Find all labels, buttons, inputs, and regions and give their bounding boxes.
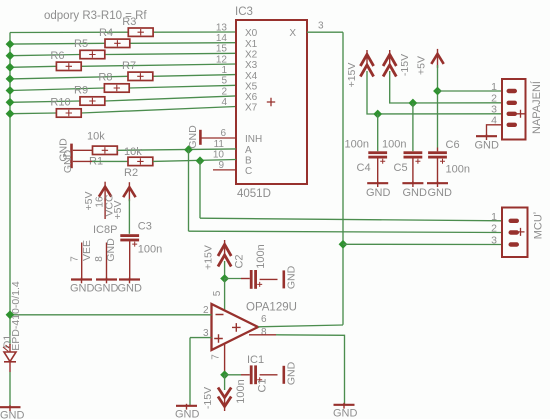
- wire -15V down: [224, 375, 226, 390]
- wire to opamp pin5: [224, 279, 226, 311]
- junction C4 tap: [373, 110, 382, 119]
- svg-text:C3: C3: [138, 221, 152, 233]
- wire node B to MCU pin1: [200, 218, 503, 221]
- junction bus row 1: [6, 40, 15, 49]
- svg-text:X3: X3: [245, 60, 258, 71]
- svg-text:+5V: +5V: [112, 201, 124, 220]
- MCU origin cross: [517, 228, 525, 236]
- svg-text:+15V: +15V: [202, 245, 214, 270]
- junction bus row 6: [6, 98, 15, 107]
- svg-text:NAPAJENÍ: NAPAJENÍ: [530, 80, 543, 134]
- NAPAJENI contact 3: [507, 112, 518, 116]
- svg-text:C5: C5: [394, 162, 408, 174]
- svg-text:15: 15: [216, 44, 228, 55]
- resistor R1: [93, 146, 118, 154]
- ground bar C6: [427, 182, 448, 184]
- svg-text:7: 7: [69, 256, 80, 262]
- pin 8 stub: [249, 334, 276, 336]
- svg-text:GND: GND: [403, 187, 428, 199]
- svg-text:-15V: -15V: [202, 387, 214, 409]
- capacitor C5: [404, 151, 423, 154]
- wire row 0 right: [153, 31, 236, 33]
- svg-text:2: 2: [221, 86, 227, 97]
- svg-text:R7: R7: [122, 60, 136, 72]
- wire pin3 left: [190, 337, 212, 339]
- ground bar C2: [282, 270, 285, 288]
- wire row 5 right: [129, 85, 236, 88]
- capacitor C3: [120, 234, 139, 237]
- power +15V arrow (rail): [366, 50, 368, 68]
- wire C5 to gnd: [412, 158, 414, 182]
- svg-text:GND: GND: [175, 409, 200, 419]
- resistor R10: [56, 109, 81, 117]
- ground bar at INH: [199, 130, 202, 145]
- svg-text:5: 5: [221, 76, 227, 87]
- wire X output: [307, 31, 343, 33]
- ground bar pin8: [334, 404, 355, 406]
- resistor R7: [128, 72, 153, 80]
- svg-text:X: X: [289, 28, 296, 39]
- svg-text:GND: GND: [428, 187, 453, 199]
- pin stub C6 top: [437, 148, 439, 152]
- diode D1: [4, 352, 16, 362]
- wire diode to gnd: [9, 372, 11, 407]
- svg-text:3: 3: [491, 235, 497, 247]
- ground bar C4: [367, 182, 388, 184]
- wire +15V down: [224, 261, 226, 279]
- resistor R3: [128, 28, 153, 36]
- svg-text:IC8P: IC8P: [93, 224, 117, 236]
- svg-text:2: 2: [491, 223, 497, 235]
- resistor R6: [56, 62, 81, 70]
- svg-text:100n: 100n: [382, 139, 406, 151]
- wire row 4 left: [10, 76, 128, 79]
- svg-text:100n: 100n: [255, 244, 267, 268]
- wire -15V to C1: [225, 374, 241, 376]
- pin stub C2 left: [241, 278, 250, 280]
- svg-text:GND: GND: [105, 238, 117, 262]
- wire +5V rail: [437, 65, 439, 148]
- MCU contact 3: [509, 242, 520, 246]
- junction bus row 5: [6, 86, 15, 95]
- wire C5 drop: [412, 103, 414, 151]
- svg-text:+15V: +15V: [346, 63, 358, 88]
- pin stub D1 top: [9, 344, 11, 353]
- svg-text:1: 1: [221, 65, 227, 76]
- svg-text:4: 4: [221, 97, 227, 108]
- svg-text:7: 7: [211, 354, 222, 360]
- junction bus to pin2: [6, 310, 15, 319]
- svg-text:GND: GND: [475, 140, 500, 152]
- pin stub C: [213, 169, 236, 171]
- connector MCU box: [502, 208, 528, 258]
- svg-text:GND: GND: [62, 149, 74, 173]
- power +5V arrow (rail): [437, 49, 439, 68]
- wire C1 to gnd: [260, 374, 278, 376]
- svg-text:GND: GND: [285, 265, 297, 289]
- op-amp U1 triangle: [212, 304, 259, 350]
- svg-text:GND: GND: [285, 361, 297, 385]
- svg-text:1: 1: [491, 211, 497, 223]
- wire +5V to C3: [128, 199, 130, 234]
- ground bar C1: [282, 366, 285, 384]
- wire node B down: [199, 161, 201, 218]
- svg-text:X6: X6: [245, 92, 258, 103]
- svg-text:5: 5: [212, 290, 223, 296]
- wire +5V to NAPAJENI pin1: [438, 90, 503, 92]
- junction +15V node: [220, 274, 229, 283]
- ground bar pin3: [176, 405, 197, 407]
- IC3 origin cross: [267, 98, 275, 106]
- svg-text:8: 8: [94, 256, 105, 262]
- NAPAJENI origin cross: [517, 110, 525, 118]
- ground bar NAPAJENI: [476, 135, 497, 137]
- junction C5 tap: [409, 99, 418, 108]
- wire row 1 right: [130, 42, 236, 45]
- resistor R2: [128, 157, 153, 165]
- svg-text:+5V: +5V: [83, 192, 95, 211]
- junction -15V node: [220, 370, 229, 379]
- ground bar C5: [402, 182, 423, 184]
- svg-text:R4: R4: [99, 27, 113, 39]
- wire row 2 left: [10, 55, 80, 56]
- svg-text:X2: X2: [245, 50, 258, 61]
- MCU contact 2: [509, 230, 520, 234]
- svg-text:R3: R3: [122, 16, 136, 28]
- wire row 7 right: [81, 107, 236, 114]
- wire C6 to gnd: [437, 158, 439, 182]
- svg-text:-15V: -15V: [399, 54, 411, 76]
- svg-text:R10: R10: [50, 97, 70, 109]
- wire R2 left: [92, 160, 128, 162]
- ground bar C3: [119, 278, 140, 280]
- wire X output vertical: [342, 32, 344, 325]
- svg-text:B: B: [245, 156, 252, 167]
- svg-text:GND: GND: [70, 283, 95, 295]
- wire C3 to gnd: [129, 241, 131, 279]
- svg-text:MCUʼ: MCUʼ: [533, 212, 545, 240]
- power -15V arrow (rail): [389, 50, 391, 68]
- svg-text:100n: 100n: [138, 244, 162, 256]
- svg-text:X4: X4: [245, 71, 258, 82]
- svg-text:X7: X7: [245, 103, 258, 114]
- svg-text:R8: R8: [98, 72, 112, 84]
- svg-text:R2: R2: [124, 167, 138, 179]
- ground bar D1: [0, 406, 21, 408]
- wire C4 drop: [377, 114, 379, 151]
- wire output: [258, 325, 343, 327]
- svg-text:C: C: [245, 166, 252, 177]
- svg-text:X5: X5: [245, 82, 258, 93]
- pin 7 line: [224, 344, 226, 375]
- wire row 6 right: [105, 96, 236, 101]
- wire C4 to gnd: [377, 158, 379, 182]
- wire +15V to C2: [225, 278, 241, 280]
- op-amp minus marker: [216, 314, 224, 316]
- svg-text:10k: 10k: [87, 131, 105, 143]
- svg-text:6: 6: [261, 314, 267, 325]
- junction bus row 3: [6, 63, 15, 72]
- capacitor C4: [368, 151, 387, 154]
- capacitor C6: [428, 151, 447, 154]
- svg-text:10: 10: [213, 150, 225, 161]
- ground bar VEE: [71, 278, 92, 280]
- svg-text:R9: R9: [74, 85, 88, 97]
- svg-text:GND: GND: [366, 187, 391, 199]
- resistor R8: [104, 84, 129, 92]
- junction X net / MCU: [339, 240, 348, 249]
- op-amp plus marker: [214, 334, 223, 343]
- wire to MCU pin3: [343, 243, 503, 245]
- wire row 5 left: [10, 88, 104, 91]
- svg-text:GND: GND: [187, 125, 199, 149]
- svg-text:X0: X0: [245, 28, 258, 39]
- wire R1 to IC3 pin A: [117, 149, 236, 150]
- capacitor C1: [250, 365, 253, 384]
- svg-text:GND: GND: [0, 410, 25, 419]
- pin stub R1 left: [73, 149, 93, 151]
- wire pin8 to gnd corner: [276, 335, 345, 404]
- power +15V arrow (op-amp): [224, 240, 226, 258]
- svg-text:10k: 10k: [124, 146, 142, 158]
- pin 16 VCC line: [104, 198, 106, 219]
- junction bus row 2: [6, 51, 15, 60]
- op-amp origin cross: [232, 323, 241, 332]
- wire left bus vertical: [9, 33, 11, 346]
- NAPAJENI contact 1: [507, 89, 518, 93]
- pin stub R2 left: [73, 160, 92, 162]
- svg-text:+5V: +5V: [415, 56, 427, 75]
- svg-text:R6: R6: [50, 50, 64, 62]
- capacitor C2: [250, 270, 253, 289]
- pin stub D1 bottom: [9, 362, 11, 372]
- svg-text:3: 3: [203, 328, 209, 339]
- svg-text:INH: INH: [245, 134, 262, 145]
- svg-text:4051D: 4051D: [237, 188, 271, 200]
- svg-text:8: 8: [261, 327, 267, 338]
- wire row 4 right: [153, 75, 236, 77]
- power +5V arrow (C3): [128, 182, 130, 201]
- svg-text:6: 6: [220, 128, 226, 139]
- svg-text:100n: 100n: [446, 164, 470, 176]
- svg-text:C2: C2: [234, 254, 246, 268]
- MCU contact 1: [509, 219, 520, 223]
- pin stub NAPAJENI pin4 gnd: [487, 125, 503, 136]
- svg-text:C1: C1: [257, 378, 269, 392]
- junction +5V tap: [433, 87, 442, 96]
- svg-text:R5: R5: [74, 38, 88, 50]
- svg-text:100n: 100n: [345, 139, 369, 151]
- svg-text:3: 3: [318, 21, 324, 32]
- svg-text:100n: 100n: [235, 379, 247, 403]
- svg-text:A: A: [245, 145, 252, 156]
- svg-text:X1: X1: [245, 39, 258, 50]
- svg-text:GND: GND: [94, 283, 119, 295]
- svg-text:C6: C6: [446, 139, 460, 151]
- svg-text:2: 2: [203, 305, 209, 316]
- svg-text:12: 12: [216, 54, 228, 65]
- junction bus row 7: [6, 109, 15, 118]
- wire node A to MCU pin2: [189, 231, 504, 232]
- wire C2 to gnd: [260, 278, 278, 280]
- NAPAJENI contact 2: [507, 101, 518, 105]
- pin 8 GND line: [106, 243, 108, 279]
- wire pin3 down to gnd: [189, 338, 191, 405]
- wire row 3 left: [10, 66, 56, 67]
- wire node A down: [188, 150, 190, 232]
- ground bar GND8: [96, 278, 117, 280]
- svg-text:EPD-410-0/1.4: EPD-410-0/1.4: [10, 281, 22, 351]
- svg-text:1: 1: [491, 81, 497, 93]
- resistor R5: [80, 50, 105, 58]
- wire row 0 left: [10, 31, 128, 33]
- wire -15V rail: [390, 71, 502, 103]
- ground bar left (R1/R2): [70, 144, 73, 169]
- junction node A: [184, 145, 193, 154]
- svg-text:14: 14: [216, 33, 228, 44]
- wire +15V rail: [367, 71, 502, 114]
- resistor R4: [105, 39, 130, 47]
- junction bus row 4: [6, 75, 15, 84]
- svg-text:GND: GND: [118, 283, 143, 295]
- power +5V arrow (pin16 VCC): [104, 182, 106, 201]
- wire row 3 right: [81, 64, 236, 66]
- svg-text:13: 13: [216, 22, 228, 33]
- svg-text:OPA129U: OPA129U: [246, 302, 297, 314]
- connector NAPAJENI box: [502, 79, 526, 140]
- wire inverting input (pin2): [10, 314, 212, 316]
- wire row 1 left: [10, 42, 105, 45]
- svg-text:C4: C4: [357, 162, 371, 174]
- svg-text:IC3: IC3: [235, 6, 253, 18]
- wire R2 to IC3 pin B: [153, 160, 236, 162]
- pin stub C1 left: [241, 374, 250, 376]
- svg-text:11: 11: [214, 139, 225, 150]
- pin 7 VEE line: [81, 243, 83, 279]
- IC IC3 box: [236, 20, 307, 184]
- svg-text:IC1: IC1: [247, 354, 264, 366]
- svg-text:VEE: VEE: [81, 240, 93, 261]
- wire row 7 left: [10, 112, 56, 115]
- pin stub INH: [200, 137, 236, 139]
- wire row 2 right: [105, 53, 236, 54]
- NAPAJENI contact 4: [507, 123, 518, 127]
- resistor R9: [80, 97, 105, 105]
- junction node B: [196, 156, 205, 165]
- svg-text:GND: GND: [333, 408, 358, 419]
- power -15V arrow: [224, 396, 226, 412]
- wire row 6 left: [10, 101, 80, 102]
